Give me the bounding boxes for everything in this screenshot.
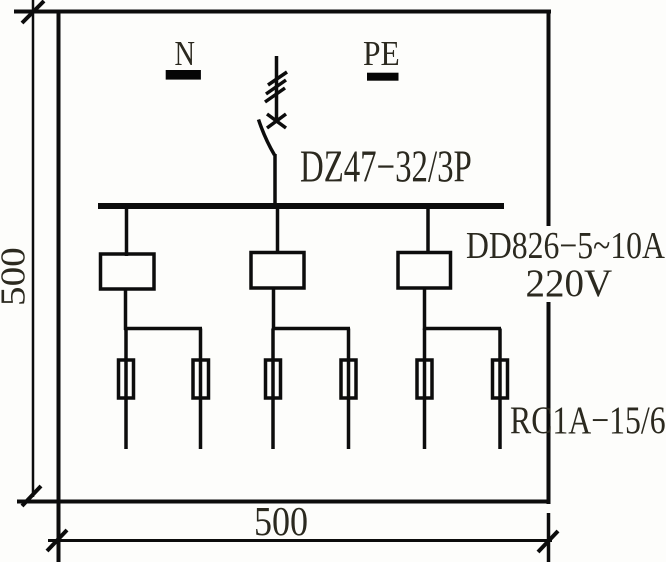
branch 1 right fuse wire — [199, 329, 203, 450]
branch 3 meter output wire — [423, 288, 427, 330]
branch 2 drop wire from busbar — [276, 206, 280, 254]
panel enclosure right border lower segment — [547, 302, 551, 504]
left dimension top tick — [22, 1, 44, 23]
left dimension line (vertical) — [32, 0, 35, 497]
branch 2 meter output wire — [272, 288, 276, 330]
svg-text:PE: PE — [363, 35, 400, 74]
svg-text:220V: 220V — [526, 262, 613, 305]
bottom dimension line (horizontal) — [48, 539, 552, 542]
svg-text:DD826−5~10A: DD826−5~10A — [466, 224, 666, 266]
busbar — [98, 203, 504, 209]
three-phase slash 2 — [266, 80, 286, 94]
circuit breaker blade QF — [259, 120, 275, 156]
branch 3 left fuse FU — [417, 360, 432, 398]
left dimension bottom tick — [22, 486, 41, 506]
panel enclosure left border — [57, 10, 61, 562]
panel enclosure right border extension witness line — [547, 513, 551, 562]
branch 3 right fuse wire — [498, 329, 502, 450]
branch 2 tee horizontal wire — [272, 327, 350, 331]
branch 1 left fuse FU — [119, 360, 134, 398]
wire from breaker to busbar — [273, 154, 277, 206]
branch 3 right fuse FU — [493, 360, 508, 398]
branch 2 right fuse wire — [347, 329, 351, 450]
branch 2 left fuse FU — [266, 360, 281, 398]
neutral terminal bar — [166, 70, 201, 80]
panel enclosure right border upper segment — [547, 10, 551, 227]
svg-text:500: 500 — [0, 247, 33, 306]
kWh meter M2 — [251, 253, 304, 289]
branch 3 left fuse wire — [423, 329, 427, 450]
branch 2 left fuse wire — [271, 329, 275, 450]
kWh meter M1 — [101, 254, 155, 289]
panel enclosure bottom border — [17, 500, 551, 504]
branch 1 tee horizontal wire — [124, 327, 202, 331]
branch 3 drop wire from busbar — [426, 206, 430, 254]
bottom dimension right tick — [538, 531, 558, 552]
three-phase slash 3 — [265, 88, 285, 102]
svg-text:RC1A−15/6: RC1A−15/6 — [510, 398, 666, 442]
svg-text:500: 500 — [254, 500, 308, 545]
branch 3 tee horizontal wire — [423, 327, 501, 331]
PE terminal bar — [367, 73, 399, 81]
svg-text:N: N — [175, 34, 195, 72]
circuit breaker contact cross stroke 1 — [267, 114, 286, 128]
branch 1 left fuse wire — [124, 329, 128, 450]
svg-text:DZ47−32/3P: DZ47−32/3P — [300, 142, 472, 192]
three-phase slash 1 — [268, 72, 287, 85]
branch 1 right fuse FU — [193, 360, 209, 398]
branch 1 drop wire from busbar — [125, 206, 129, 256]
circuit breaker contact cross stroke 2 — [267, 114, 286, 128]
branch 1 meter output wire — [124, 289, 128, 330]
incoming wire above breaker — [275, 56, 279, 122]
bottom dimension left tick — [47, 530, 67, 551]
kWh meter M3 — [398, 253, 451, 289]
panel enclosure top border — [14, 10, 551, 14]
branch 2 right fuse FU — [341, 360, 356, 398]
